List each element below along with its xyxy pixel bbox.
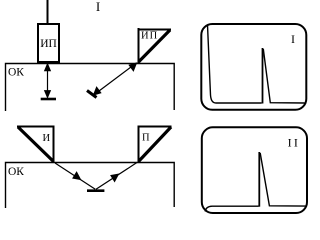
wire (cable to probe ИП) — [47, 0, 49, 24]
beam double arrow (vertical) — [45, 64, 51, 98]
svg-text:ОК: ОК — [8, 166, 24, 178]
oscilloscope screen II — [202, 127, 307, 213]
trace II (baseline and echo) — [205, 153, 305, 212]
transducer И (emitter, lower left) — [17, 126, 55, 163]
transducer ИП (normal probe) — [38, 24, 59, 62]
oscilloscope screen I — [201, 24, 306, 110]
beam double arrow (angled ray) — [94, 63, 137, 95]
test object ОК (lower) — [6, 163, 175, 209]
svg-text:И: И — [43, 133, 51, 144]
defect D2 (tilted flaw) — [87, 91, 97, 98]
svg-text:П: П — [142, 133, 150, 144]
ray defect to П — [96, 162, 137, 189]
transducer ИП (angle probe, upper right) — [138, 28, 172, 63]
trace I (initial pulse, baseline, echo) — [208, 25, 305, 103]
defect D1 (horizontal flaw) — [41, 98, 56, 101]
defect D3 (horizontal flaw) — [87, 189, 104, 192]
transducer П (receiver, lower right) — [138, 126, 172, 163]
svg-text:I: I — [96, 0, 100, 14]
svg-text:ОК: ОК — [8, 67, 24, 79]
svg-text:ИП: ИП — [40, 38, 57, 50]
test object ОК (upper) — [6, 64, 175, 112]
svg-text:ИП: ИП — [141, 31, 158, 42]
svg-text:I: I — [291, 32, 295, 46]
ray И to defect — [55, 163, 95, 189]
